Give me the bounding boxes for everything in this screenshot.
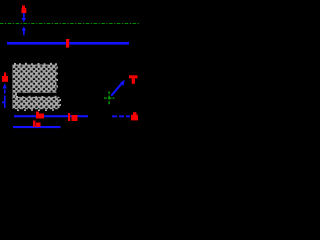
- dim label b1 (red): [36, 112, 44, 119]
- hatched wall: left spine through slot: [13, 93, 18, 97]
- dim label h (red): [33, 121, 41, 128]
- left red label a: [2, 73, 8, 82]
- label T (red): [129, 75, 138, 84]
- hatched wall: lower bar: [13, 96, 62, 111]
- bottom dimension line 2 (blue): [13, 126, 61, 128]
- main dimension line (blue horizontal): [7, 42, 129, 45]
- dim label b (red): [68, 113, 78, 121]
- bottom dimension line 1 (blue): [14, 115, 130, 117]
- red tick on dimension line: [66, 39, 69, 48]
- centerline (green dash-dot): [0, 23, 140, 25]
- reaction arrow up below centerline: [22, 26, 26, 35]
- force arrow down onto centerline: [22, 13, 26, 22]
- radius arrow (blue diagonal): [111, 80, 125, 96]
- left dashed dimension arrow (blue, up): [2, 83, 7, 108]
- force label F (red): [22, 6, 27, 14]
- hatched wall: main block: [13, 63, 59, 93]
- dim label right (red): [131, 112, 138, 120]
- center mark (green dashed crosshair): [104, 92, 114, 105]
